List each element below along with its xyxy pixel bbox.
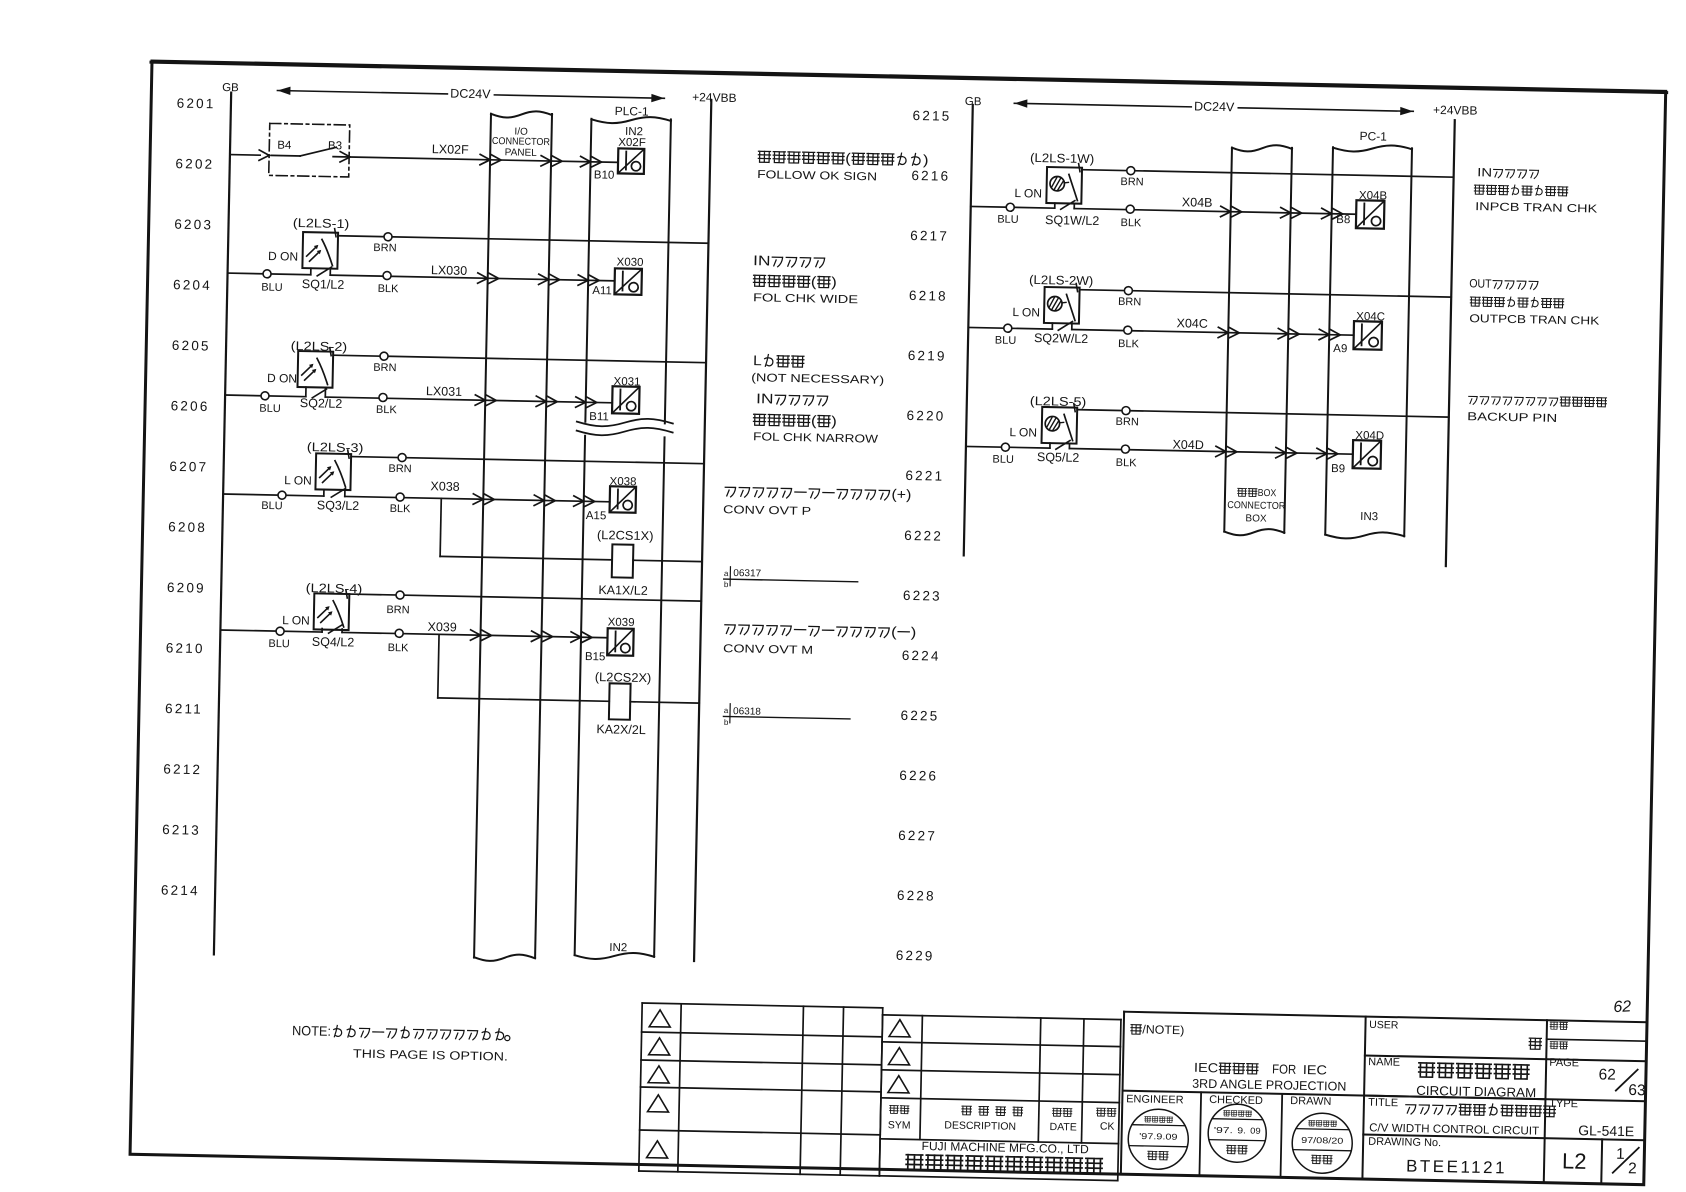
svg-text:6201: 6201: [177, 96, 216, 112]
wire X04C (BLK): [1071, 314, 1354, 355]
note FOL CHK NARROW: [750, 352, 885, 446]
right power rail GB (vertical bus): [964, 105, 973, 555]
svg-text:CONV OVT P: CONV OVT P: [723, 504, 812, 518]
svg-text:6205: 6205: [172, 338, 211, 354]
svg-text:6219: 6219: [908, 348, 947, 364]
svg-text:X039: X039: [608, 617, 635, 630]
svg-text:X04B: X04B: [1182, 195, 1213, 210]
svg-text:BLU: BLU: [268, 638, 290, 650]
svg-text:OUTPCB TRAN CHK: OUTPCB TRAN CHK: [1469, 313, 1600, 328]
wire X039 (BLK): [342, 618, 608, 658]
svg-text:BLK: BLK: [1120, 217, 1142, 229]
note FOLLOW OK SIGN: [757, 148, 929, 184]
svg-text:SQ3/L2: SQ3/L2: [317, 498, 360, 513]
svg-text:SQ1/L2: SQ1/L2: [302, 277, 345, 292]
svg-text:IN: IN: [753, 252, 771, 268]
svg-text:09: 09: [1250, 1126, 1261, 1136]
node +24VBB (left half): [692, 90, 737, 105]
svg-text:BLK: BLK: [1118, 338, 1140, 350]
svg-text:BOX: BOX: [1245, 513, 1267, 524]
branch wire rung 6207 to relay coil KA1X: [440, 498, 613, 559]
svg-text:BLK: BLK: [388, 642, 410, 654]
svg-text:1: 1: [1616, 1146, 1625, 1163]
svg-text:97/08/20: 97/08/20: [1301, 1135, 1344, 1146]
svg-text:(: (: [891, 623, 897, 639]
svg-text:6209: 6209: [167, 580, 206, 596]
svg-text:L ON: L ON: [1014, 186, 1042, 201]
svg-text:B10: B10: [594, 169, 615, 181]
svg-text:): ): [831, 413, 837, 429]
svg-text:FOLLOW OK SIGN: FOLLOW OK SIGN: [757, 169, 877, 183]
svg-text:SYM: SYM: [888, 1119, 911, 1131]
wire GB to switch SQ5/L2 (BLU): [966, 442, 1050, 466]
svg-text:IN: IN: [1477, 165, 1492, 179]
svg-text:SQ1W/L2: SQ1W/L2: [1045, 213, 1100, 228]
svg-text:B4: B4: [277, 140, 292, 152]
svg-text:BLK: BLK: [1116, 457, 1138, 469]
svg-text:CK: CK: [1100, 1121, 1115, 1133]
svg-text:TYPE: TYPE: [1549, 1098, 1578, 1111]
svg-text:IEC: IEC: [1303, 1062, 1327, 1077]
svg-text:(: (: [811, 412, 817, 428]
svg-text:9.: 9.: [1237, 1125, 1246, 1135]
wire BRN SQ3 to +24VBB: [351, 453, 704, 482]
svg-text:DESCRIPTION: DESCRIPTION: [944, 1119, 1016, 1132]
svg-text:PAGE: PAGE: [1549, 1057, 1579, 1070]
PLC input X038 pin A15: [586, 475, 637, 523]
svg-text:PC-1: PC-1: [1359, 129, 1387, 144]
svg-text:(+): (+): [891, 486, 911, 502]
left power rail GB (vertical bus): [214, 93, 231, 955]
svg-text:BLU: BLU: [261, 500, 283, 512]
svg-text:CIRCUIT DIAGRAM: CIRCUIT DIAGRAM: [1416, 1083, 1536, 1100]
svg-text:PANEL: PANEL: [505, 147, 538, 159]
svg-text:BRN: BRN: [386, 604, 410, 616]
limit switch SQ5/L2 (L2LS-5): [1009, 394, 1087, 465]
wire coil KA2X to +24VBB: [630, 702, 699, 703]
svg-text:DC24V: DC24V: [1194, 99, 1235, 114]
svg-text:LX02F: LX02F: [432, 142, 469, 157]
svg-text:X038: X038: [430, 479, 460, 494]
svg-text:BLU: BLU: [995, 334, 1017, 346]
wire rung 6206: GB to switch (BLU): [225, 391, 306, 416]
DC24V supply arrow (right half): [1014, 96, 1413, 118]
svg-text:6226: 6226: [899, 768, 938, 784]
left power rail +24VBB (vertical bus): [694, 100, 711, 961]
svg-text:BACKUP PIN: BACKUP PIN: [1467, 411, 1557, 425]
svg-text:LX030: LX030: [431, 263, 467, 278]
svg-text:(: (: [845, 150, 851, 166]
svg-text:3RD ANGLE PROJECTION: 3RD ANGLE PROJECTION: [1192, 1077, 1346, 1094]
svg-text:B11: B11: [589, 411, 609, 423]
wire LX030 (BLK): [330, 261, 615, 300]
svg-text:): ): [911, 624, 917, 640]
svg-text:B8: B8: [1336, 214, 1350, 226]
PLC input X04C pin A9: [1333, 310, 1385, 356]
svg-text:6211: 6211: [165, 701, 203, 717]
svg-text:IN: IN: [756, 390, 774, 406]
contact B4-B3 follow-ok input (dashed enclosure): [259, 123, 351, 177]
svg-text:A15: A15: [586, 510, 607, 522]
line number column 6215-6229: [896, 108, 952, 964]
PC-1 module column (IN3): [1325, 144, 1412, 539]
svg-text:KA1X/L2: KA1X/L2: [598, 583, 648, 598]
node +24VBB (right half): [1433, 103, 1478, 118]
reference 06318: [723, 704, 850, 730]
svg-text:BRN: BRN: [373, 362, 397, 374]
svg-text:'97.9.09: '97.9.09: [1139, 1131, 1178, 1142]
svg-text:/NOTE): /NOTE): [1142, 1022, 1184, 1037]
node GB (right rail label): [965, 96, 982, 108]
svg-text:6224: 6224: [902, 648, 941, 664]
svg-text:b: b: [724, 580, 729, 589]
svg-text:L ON: L ON: [282, 613, 310, 628]
svg-text:BRN: BRN: [388, 463, 412, 475]
limit switch SQ2W/L2 (L2LS-2W): [1012, 273, 1094, 347]
svg-text:INPCB TRAN CHK: INPCB TRAN CHK: [1475, 201, 1598, 215]
svg-text:63: 63: [1628, 1082, 1646, 1099]
svg-text:(: (: [811, 273, 817, 289]
svg-text:BLK: BLK: [390, 503, 412, 515]
svg-text:6222: 6222: [904, 528, 943, 544]
note CONV OVT P: [723, 483, 912, 520]
wire BRN SQ2 to +24VBB: [333, 351, 706, 380]
wire X04D (BLK): [1069, 435, 1353, 473]
PLC input X031 pin B11: [589, 375, 640, 424]
svg-text:X030: X030: [617, 256, 644, 269]
PC-1 label: [1359, 129, 1387, 144]
svg-text:): ): [923, 151, 929, 167]
relay coil KA1X/L2 (L2CS1X): [596, 528, 654, 598]
svg-text:KA2X/2L: KA2X/2L: [596, 722, 646, 737]
wire coil KA1X to +24VBB: [633, 560, 702, 561]
svg-text:6225: 6225: [900, 708, 939, 724]
svg-text:OUT: OUT: [1469, 276, 1492, 290]
wire LX031 (BLK): [325, 382, 613, 420]
svg-text:ENGINEER: ENGINEER: [1126, 1093, 1184, 1106]
svg-text:(L2LS-2W): (L2LS-2W): [1029, 273, 1093, 288]
PLC-1 module column (IN2): [566, 103, 679, 960]
svg-text:X04C: X04C: [1176, 316, 1208, 331]
svg-text:BRN: BRN: [1116, 416, 1140, 428]
svg-text:): ): [831, 274, 837, 290]
wire GB to switch SQ1W/L2 (BLU): [970, 202, 1054, 226]
svg-text:6214: 6214: [161, 883, 200, 899]
svg-text:CONNECTOR: CONNECTOR: [492, 136, 550, 148]
svg-text:DRAWING No.: DRAWING No.: [1368, 1136, 1441, 1149]
svg-text:2: 2: [1628, 1160, 1637, 1177]
svg-text:FUJI MACHINE MFG.CO., LTD: FUJI MACHINE MFG.CO., LTD: [921, 1139, 1089, 1156]
wire X04B (BLK): [1074, 193, 1357, 234]
wire BRN SQ4 to +24VBB: [349, 590, 701, 622]
svg-text:a: a: [724, 706, 729, 715]
svg-text:D ON: D ON: [268, 249, 298, 264]
wire GB to switch SQ2W/L2 (BLU): [968, 323, 1052, 347]
svg-text:DATE: DATE: [1049, 1121, 1076, 1134]
svg-text:62: 62: [1613, 998, 1632, 1016]
wire rung 6204: GB to switch (BLU): [227, 269, 311, 294]
PLC input X04B pin B8: [1336, 189, 1387, 228]
svg-text:SQ4/L2: SQ4/L2: [312, 635, 355, 650]
svg-text:DRAWN: DRAWN: [1290, 1095, 1331, 1108]
svg-text:BOX: BOX: [1258, 488, 1277, 499]
node GB (left rail label): [222, 82, 239, 94]
svg-text:IN3: IN3: [1360, 511, 1378, 523]
svg-text:FOL CHK WIDE: FOL CHK WIDE: [753, 292, 859, 306]
svg-text:+24VBB: +24VBB: [692, 90, 737, 105]
svg-text:6203: 6203: [174, 217, 213, 233]
svg-text:BRN: BRN: [373, 242, 397, 254]
PLC input X030 pin A11: [592, 256, 643, 298]
svg-text:6220: 6220: [906, 408, 945, 424]
svg-text:L: L: [753, 352, 762, 368]
svg-text:(L2CS1X): (L2CS1X): [597, 528, 654, 543]
svg-text:BLU: BLU: [992, 453, 1014, 465]
svg-text:6218: 6218: [909, 288, 948, 304]
svg-text:IEC: IEC: [1194, 1060, 1218, 1075]
connector box column (middle BOX): [1224, 144, 1292, 536]
I/O connector panel column: [474, 110, 552, 961]
svg-text:+24VBB: +24VBB: [1433, 103, 1478, 118]
wire BRN SQ1W/L2 to +24VBB: [1082, 166, 1454, 195]
svg-text:IN2: IN2: [609, 942, 627, 954]
limit switch SQ3/L2 (L2LS-3): [284, 440, 364, 514]
relay coil KA2X/2L (L2CS2X): [594, 670, 652, 737]
svg-text:6216: 6216: [911, 168, 950, 184]
svg-text:6213: 6213: [162, 822, 201, 838]
svg-text:6228: 6228: [897, 888, 936, 904]
svg-text:BLU: BLU: [261, 282, 283, 294]
svg-text:X04D: X04D: [1172, 438, 1204, 453]
note BACKUP PIN: [1467, 395, 1606, 426]
svg-text:62: 62: [1598, 1066, 1616, 1083]
svg-text:b: b: [724, 718, 729, 727]
svg-text:GL-541E: GL-541E: [1578, 1122, 1634, 1139]
svg-text:A11: A11: [592, 285, 612, 297]
svg-text:B9: B9: [1331, 463, 1345, 475]
svg-text:X039: X039: [427, 620, 457, 635]
svg-text:6206: 6206: [171, 398, 210, 414]
svg-text:6223: 6223: [903, 588, 942, 604]
note OUTPCB TRAN CHK: [1468, 276, 1600, 327]
svg-text:B15: B15: [585, 651, 606, 663]
note CONV OVT M: [723, 620, 916, 659]
wire BRN SQ1 to +24VBB: [338, 232, 709, 261]
svg-text:THIS PAGE IS OPTION.: THIS PAGE IS OPTION.: [353, 1047, 508, 1064]
svg-text:6221: 6221: [905, 468, 944, 484]
limit switch SQ1W/L2 (L2LS-1W): [1014, 151, 1101, 228]
limit switch SQ1/L2 (L2LS-1): [267, 215, 349, 292]
svg-text:D ON: D ON: [267, 371, 297, 386]
wire rung 6207: GB to switch (BLU): [223, 490, 324, 513]
line number column 6201-6214: [161, 96, 216, 899]
wire rung 6202: GB to contact: [230, 154, 260, 157]
svg-text:BLU: BLU: [997, 213, 1019, 225]
svg-text:6210: 6210: [166, 640, 205, 656]
svg-text:6217: 6217: [910, 228, 949, 244]
svg-text:BLK: BLK: [376, 404, 398, 416]
svg-text:6229: 6229: [896, 948, 935, 964]
svg-text:A9: A9: [1333, 343, 1347, 355]
svg-text:TITLE: TITLE: [1368, 1097, 1398, 1110]
svg-text:SQ2W/L2: SQ2W/L2: [1034, 331, 1089, 346]
svg-text:LX031: LX031: [426, 384, 462, 399]
svg-text:(L2LS-1): (L2LS-1): [293, 216, 350, 231]
svg-text:L2: L2: [1562, 1148, 1587, 1173]
svg-text:FOR: FOR: [1272, 1061, 1296, 1076]
svg-text:NAME: NAME: [1368, 1056, 1400, 1069]
svg-text:06317: 06317: [733, 568, 761, 580]
PLC input X02F pin B10: [594, 136, 646, 182]
limit switch SQ4/L2 (L2LS-4): [282, 581, 363, 650]
wire X038 (BLK): [344, 478, 610, 520]
note INPCB TRAN CHK: [1474, 165, 1599, 215]
limit switch SQ2/L2 (L2LS-2): [266, 338, 347, 410]
svg-text:BTEE1121: BTEE1121: [1406, 1156, 1507, 1177]
svg-text:(L2LS-1W): (L2LS-1W): [1030, 151, 1094, 166]
svg-text:6204: 6204: [173, 277, 212, 293]
svg-text:6202: 6202: [175, 156, 214, 172]
DC24V supply arrow (left half): [277, 83, 664, 105]
svg-text:BRN: BRN: [1120, 176, 1144, 188]
svg-text:6212: 6212: [163, 761, 202, 777]
right power rail +24VBB (vertical bus): [1446, 120, 1455, 566]
reference 06317: [724, 567, 858, 592]
svg-text:SQ5/L2: SQ5/L2: [1037, 450, 1080, 465]
svg-text:BLK: BLK: [378, 283, 400, 295]
svg-text:NOTE:: NOTE:: [292, 1023, 331, 1039]
wire rung 6210: GB to switch (BLU): [220, 626, 322, 651]
svg-text:L ON: L ON: [284, 473, 312, 488]
PLC input X039 pin B15: [585, 616, 635, 664]
svg-text:FOL CHK NARROW: FOL CHK NARROW: [753, 431, 878, 446]
svg-text:L ON: L ON: [1009, 425, 1037, 440]
svg-text:L ON: L ON: [1012, 305, 1040, 320]
svg-text:CONV OVT M: CONV OVT M: [723, 643, 813, 657]
svg-text:(NOT NECESSARY): (NOT NECESSARY): [751, 372, 884, 387]
svg-text:6227: 6227: [898, 828, 937, 844]
svg-text:SQ2/L2: SQ2/L2: [300, 396, 343, 411]
svg-text:BLU: BLU: [259, 403, 281, 415]
svg-text:6208: 6208: [168, 519, 207, 535]
wire LX02F rung 6202: [350, 140, 618, 167]
svg-text:a: a: [724, 569, 729, 578]
svg-text:6207: 6207: [169, 459, 208, 475]
svg-text:DC24V: DC24V: [450, 86, 491, 101]
PLC input X04D pin B9: [1331, 429, 1384, 476]
wire BRN SQ2W/L2 to +24VBB: [1079, 286, 1451, 315]
note FOL CHK WIDE: [752, 252, 859, 306]
svg-text:BRN: BRN: [1118, 296, 1142, 308]
branch wire rung 6210 to relay coil KA2X: [438, 634, 611, 701]
wire BRN SQ5/L2 to +24VBB: [1077, 406, 1449, 435]
svg-text:6215: 6215: [912, 108, 951, 124]
svg-text:'97.: '97.: [1214, 1125, 1233, 1135]
svg-text:USER: USER: [1369, 1019, 1399, 1032]
svg-text:CONNECTOR: CONNECTOR: [1227, 500, 1285, 512]
svg-text:CHECKED: CHECKED: [1209, 1094, 1263, 1107]
